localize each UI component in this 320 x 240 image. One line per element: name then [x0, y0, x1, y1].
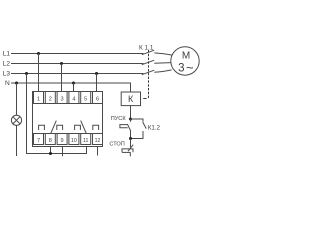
wire L1 drop to terminal 1 — [38, 54, 40, 92]
device U1 bottom terminal row separator — [33, 133, 103, 135]
wire PUSK lower lead — [130, 131, 132, 139]
wire pole 1 to motor — [154, 53, 172, 55]
junction dot N to lamp — [15, 82, 18, 85]
device U1 outline — [33, 92, 103, 147]
internal contact group left: fixed contact staple over 7-8 — [39, 125, 45, 130]
svg-text:3: 3 — [178, 62, 184, 74]
terminal 10 — [69, 134, 79, 145]
relay coil K — [121, 92, 140, 106]
svg-text:L2: L2 — [3, 61, 11, 68]
wire K coil to PUSK junction — [130, 106, 132, 119]
terminal 7 — [34, 134, 44, 145]
terminal 2 — [45, 92, 55, 104]
terminal 6 — [93, 92, 103, 104]
contact K1.2 blade — [143, 122, 147, 129]
terminal 12 — [93, 134, 103, 145]
svg-text:11: 11 — [83, 138, 88, 144]
internal contact group left: fixed contact staple over 9 — [57, 125, 63, 130]
button PUSK actuator bracket — [120, 125, 128, 128]
terminal 4 — [69, 92, 79, 104]
svg-text:К1.2: К1.2 — [148, 124, 161, 131]
button STOP blade — [128, 145, 133, 152]
internal contact group left: blade — [51, 121, 56, 133]
svg-text:N: N — [5, 80, 10, 87]
junction dot L2 to terminal 3 — [60, 62, 63, 65]
wire lamp down lead — [16, 125, 18, 156]
wire L3 drop to terminal 6 — [96, 74, 98, 92]
svg-text:L1: L1 — [3, 51, 11, 58]
svg-text:7: 7 — [37, 138, 40, 144]
junction dot N to terminal 4 — [72, 82, 75, 85]
wire L1 bus — [11, 53, 144, 55]
button PUSK blade — [127, 124, 130, 131]
junction dot K1.2 branch bottom — [129, 137, 132, 140]
svg-text:1: 1 — [37, 97, 40, 103]
wire terminal 8 drop to control line — [50, 147, 52, 154]
svg-text:6: 6 — [96, 97, 99, 103]
svg-text:ПУСК: ПУСК — [111, 116, 127, 122]
svg-text:L3: L3 — [3, 71, 11, 78]
mechanical linkage dashed — [148, 50, 150, 99]
svg-text:3: 3 — [61, 97, 64, 103]
wire N bus — [11, 83, 131, 92]
wire pole 3 to motor — [154, 70, 171, 72]
junction dot L3 to terminal 6 — [95, 72, 98, 75]
internal contact group right: fixed contact staple over 10 — [75, 125, 81, 130]
button STOP fixed bridge — [122, 149, 133, 152]
wire L3 bus — [11, 73, 144, 75]
svg-text:2: 2 — [49, 97, 52, 103]
terminal 8 — [45, 134, 55, 145]
button STOP movable bar — [122, 151, 131, 153]
svg-text:10: 10 — [71, 138, 77, 144]
junction dot L3 to control circuit — [25, 72, 28, 75]
button PUSK upper lead — [130, 119, 132, 122]
wire L2 drop to terminal 3 — [61, 64, 63, 92]
internal contact group right: blade — [81, 121, 86, 133]
wire K1.2 branch top — [131, 119, 144, 122]
junction dot terminal 8 / control line — [49, 152, 52, 155]
contact K1.1 pole 3 blade — [142, 70, 154, 75]
contact K1.1 pole 1 blade — [142, 50, 154, 55]
terminal 11 — [81, 134, 91, 145]
internal contact group right: fixed contact staple over 12 — [93, 125, 99, 130]
wire K1.2 branch bottom — [131, 131, 144, 139]
junction dot K1.2 branch top — [129, 118, 132, 121]
device U1 top terminal row separator — [33, 103, 103, 105]
svg-text:9: 9 — [61, 138, 64, 144]
terminal 5 — [81, 92, 91, 104]
svg-text:8: 8 — [49, 138, 52, 144]
wire N down to lamp — [16, 83, 18, 115]
lamp HL — [11, 115, 21, 125]
motor M — [171, 47, 199, 75]
button STOP upper lead — [130, 139, 132, 148]
svg-text:К 1.1: К 1.1 — [139, 44, 154, 51]
wire pole 2 to motor — [154, 62, 171, 65]
wire L3 control drop and bottom run — [27, 74, 87, 154]
wire terminal 9 stub — [62, 147, 64, 157]
svg-text:СТОП: СТОП — [109, 142, 124, 148]
contact K1.1 pole 2 blade — [142, 60, 154, 64]
svg-text:~: ~ — [186, 60, 194, 75]
junction dot L1 to terminal 1 — [37, 52, 40, 55]
terminal 3 — [57, 92, 67, 104]
terminal 9 — [57, 134, 67, 145]
wire STOP lower lead — [129, 152, 131, 156]
svg-text:4: 4 — [72, 97, 75, 103]
svg-text:5: 5 — [84, 97, 87, 103]
terminal 1 — [34, 92, 44, 104]
wire L2 bus — [11, 63, 144, 65]
wire terminal 12 stub — [97, 147, 99, 156]
wire N drop to terminal 4 — [73, 83, 75, 92]
svg-text:К: К — [128, 94, 134, 104]
svg-text:12: 12 — [95, 138, 101, 144]
